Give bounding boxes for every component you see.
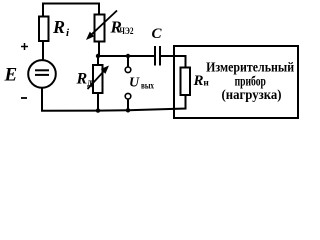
svg-text:R: R xyxy=(52,17,65,37)
svg-text:E: E xyxy=(4,65,18,86)
svg-text:вых: вых xyxy=(141,82,154,92)
svg-text:U: U xyxy=(129,75,140,90)
svg-text:(нагрузка): (нагрузка) xyxy=(222,87,282,102)
svg-text:н: н xyxy=(203,78,208,88)
svg-text:R: R xyxy=(193,73,204,89)
svg-text:Измерительный: Измерительный xyxy=(206,60,294,75)
svg-text:R: R xyxy=(76,71,88,88)
svg-text:д: д xyxy=(87,78,92,89)
svg-text:ЧЭ2: ЧЭ2 xyxy=(120,26,134,36)
svg-text:i: i xyxy=(66,27,70,39)
svg-text:C: C xyxy=(152,26,163,42)
